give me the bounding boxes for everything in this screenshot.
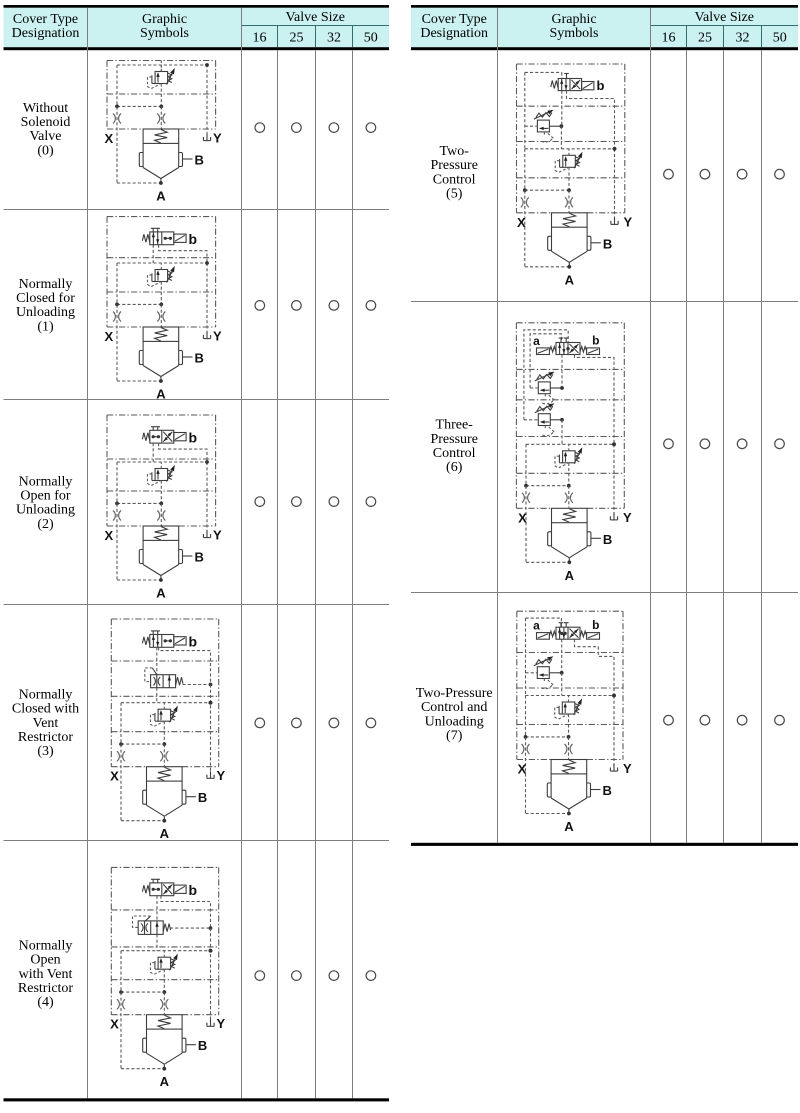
row 6 divider 3 [516, 436, 624, 438]
table bottom border [411, 843, 798, 846]
row 4 Y drain rail [209, 928, 213, 1021]
svg-text:(7): (7) [446, 728, 463, 743]
svg-text:B: B [603, 532, 612, 547]
svg-text:b: b [189, 882, 198, 898]
svg-text:X: X [104, 131, 113, 146]
svg-text:B: B [195, 351, 204, 366]
svg-text:16: 16 [253, 30, 267, 45]
row 3 enclosure (dash-dot boundary) [111, 619, 218, 767]
svg-text:b: b [592, 334, 599, 348]
table header background [4, 8, 390, 48]
row 6 compartment divider [516, 472, 624, 474]
row 1 vent passage line [117, 261, 209, 265]
row 2 pilot junction line [115, 502, 163, 506]
row 1 restrictor center [157, 304, 165, 326]
row 5 drain Y [611, 214, 633, 229]
svg-text:A: A [565, 568, 575, 583]
row 2 solenoid-to-vent line [152, 443, 154, 462]
svg-text:32: 32 [736, 30, 750, 45]
row 6 port A [565, 560, 575, 582]
svg-text:b: b [189, 231, 198, 247]
row 7 compartment divider [517, 724, 623, 726]
row 3 pilot relief valve [151, 703, 178, 744]
svg-text:Two-Pressure: Two-Pressure [416, 686, 493, 701]
row 4 pilot junction line [119, 990, 166, 994]
row 3 restrictor left [117, 751, 125, 761]
row 0 port level line [107, 128, 216, 130]
row 3 size circles [255, 718, 376, 728]
row 2 restrictor center [157, 503, 165, 525]
row 0 compartment divider [107, 93, 216, 95]
row 0 port A [156, 181, 166, 203]
svg-text:(1): (1) [37, 319, 54, 334]
row 5 port level line [517, 212, 625, 214]
row 0 restrictor left [113, 114, 121, 124]
row 2 upper divider [107, 458, 216, 460]
row 6 drain Y [610, 510, 632, 525]
row 5 X rail upper [524, 72, 526, 148]
row 6 main valve [548, 508, 591, 561]
row 3 port B [186, 790, 207, 805]
svg-text:X: X [518, 762, 527, 777]
row 6 remote relief 1 inlet [530, 387, 538, 389]
svg-text:Y: Y [623, 761, 632, 776]
row 4 restrictor left [117, 999, 125, 1009]
column lines [498, 8, 762, 843]
row 5 remote relief inlet [525, 125, 538, 127]
row 5 vent passage line [525, 147, 617, 151]
row 6 restrictor center [565, 486, 573, 508]
row 3 pilot junction line [119, 742, 166, 746]
row 6 remote relief 2 output [550, 418, 564, 444]
row 3 X pilot rail [121, 703, 164, 821]
row 2 port B [183, 550, 204, 565]
row 0 size circles [255, 123, 376, 133]
row 5 X pilot rail [525, 149, 570, 267]
left table header text [12, 10, 378, 45]
svg-text:Valve Size: Valve Size [694, 10, 753, 25]
svg-text:A: A [564, 819, 574, 834]
row 1 label [16, 277, 75, 334]
row 6 remote relief 2 inlet [524, 419, 538, 421]
row 5 port A [565, 265, 575, 287]
row 5 enclosure (dash-dot boundary) [517, 64, 625, 213]
row 3 restrictor center [160, 744, 168, 766]
svg-text:B: B [198, 1038, 207, 1053]
row 3 port X label [110, 769, 119, 784]
row 3 vent restrictor valve [145, 668, 183, 688]
svg-text:Normally: Normally [19, 277, 73, 292]
row 7 pilot junction line [524, 735, 571, 739]
row 1 port X label [104, 329, 113, 344]
row 2 label [16, 475, 75, 532]
row 4 solenoid-to-restrictor line [156, 896, 158, 921]
svg-text:Closed with: Closed with [12, 702, 79, 717]
svg-text:Pressure: Pressure [430, 158, 477, 173]
row 1 solenoid-to-vent line [152, 245, 154, 263]
row 5 label [430, 144, 477, 201]
row 2 port X label [104, 528, 113, 543]
row 5 port X label [517, 215, 526, 230]
column lines [88, 8, 353, 1099]
svg-text:Unloading: Unloading [425, 714, 484, 729]
row 7 port B [591, 783, 612, 798]
row 7 X pilot rail [526, 696, 569, 814]
row 6 port X label [518, 510, 527, 525]
row 2 compartment divider [107, 490, 216, 492]
row 2 port level line [107, 525, 216, 527]
row 6 vent passage line [526, 442, 616, 446]
row 4 label [18, 939, 74, 1010]
row 6 label [430, 418, 477, 475]
row 5 divider 2 [517, 141, 625, 143]
svg-text:Normally: Normally [19, 475, 73, 490]
svg-text:X: X [110, 1017, 119, 1032]
row 7 enclosure (dash-dot boundary) [517, 611, 623, 759]
row 6 pilot box inner [530, 334, 561, 388]
svg-text:A: A [156, 586, 166, 601]
table top border [411, 5, 798, 8]
svg-text:B: B [195, 550, 204, 565]
svg-text:Open: Open [30, 953, 60, 968]
table header background [411, 8, 798, 48]
row 5 solenoid-to-junction line [561, 91, 563, 127]
svg-text:Normally: Normally [19, 688, 73, 703]
row 4 vent restrictor valve [133, 916, 171, 934]
svg-text:Control: Control [433, 172, 476, 187]
row 2 enclosure (dash-dot boundary) [107, 415, 216, 526]
row 7 solenoid-to-junction line [561, 639, 563, 673]
svg-text:(5): (5) [446, 186, 463, 201]
row 3 restrictor outlet line [156, 688, 158, 703]
svg-text:Y: Y [217, 768, 226, 783]
row 1 Y drain rail [206, 263, 208, 334]
header bottom border [4, 47, 390, 50]
row 4 size circles [255, 971, 376, 981]
row 1 main valve [139, 327, 182, 380]
row 7 size circles [664, 715, 785, 725]
row 1 solenoid-to-Y line [159, 245, 207, 263]
row 6 divider 2 [516, 399, 624, 401]
row 3 drain Y [207, 768, 226, 783]
svg-text:25: 25 [290, 30, 304, 45]
row 7 pilot relief valve [555, 696, 582, 737]
row 5 pilot relief valve [555, 149, 582, 190]
svg-text:A: A [156, 387, 166, 402]
row 7 port level line [517, 759, 623, 761]
row 7 divider 2 [517, 687, 623, 689]
row 1 compartment divider [107, 291, 216, 293]
row 7 port X label [518, 762, 527, 777]
svg-text:Solenoid: Solenoid [21, 115, 71, 130]
row 0 drain Y [203, 131, 222, 146]
svg-text:25: 25 [698, 30, 712, 45]
row 0 pilot junction line [115, 105, 163, 109]
row 6 pilot junction line [524, 484, 571, 488]
row 6 pilot relief valve [555, 444, 582, 485]
row 4 main valve [143, 1015, 186, 1068]
row 7 main valve [547, 760, 590, 813]
svg-text:Three-: Three- [436, 418, 474, 433]
row 1 port A [156, 379, 166, 401]
row 1 restrictor left [113, 312, 121, 322]
svg-text:Symbols: Symbols [140, 26, 189, 41]
svg-text:32: 32 [327, 30, 341, 45]
row 6 remote relief valve 1 [535, 372, 555, 404]
row 6 restrictor left [522, 493, 530, 503]
row 4 restrictor outlet line [156, 934, 158, 950]
row 3 main valve [143, 767, 186, 820]
svg-text:(6): (6) [446, 460, 463, 475]
svg-text:16: 16 [662, 30, 676, 45]
row 7 label [416, 686, 493, 743]
row 1 pilot relief valve [148, 263, 175, 304]
row 3 port A [160, 819, 170, 841]
row 7 remote relief output [549, 671, 563, 696]
row 5 solenoid-to-Y line [567, 91, 615, 149]
svg-text:B: B [603, 783, 612, 798]
row 6 remote relief valve 2 [535, 403, 555, 435]
row 3 vent passage line [121, 701, 212, 705]
svg-text:Symbols: Symbols [549, 26, 598, 41]
row 4 divider 1 [111, 909, 218, 911]
svg-text:X: X [104, 528, 113, 543]
svg-text:(0): (0) [37, 143, 54, 158]
row 7 restrictor center [565, 737, 573, 759]
valve size sub-divider [651, 25, 799, 27]
svg-text:Designation: Designation [420, 26, 488, 41]
svg-text:X: X [517, 215, 526, 230]
row 4 port level line [111, 1014, 218, 1016]
row 3 port level line [111, 766, 218, 768]
row 5 restrictor left [521, 197, 529, 207]
row 3 solenoid-to-restrictor line [156, 647, 158, 674]
svg-text:Unloading: Unloading [16, 305, 75, 320]
row 4 enclosure (dash-dot boundary) [111, 867, 218, 1014]
row 0 restrictor center [157, 106, 165, 128]
svg-text:Y: Y [623, 510, 632, 525]
row 6 solenoid-to-junction line [561, 355, 563, 389]
row 0 vent passage line [117, 63, 209, 67]
row 6 enclosure (dash-dot boundary) [516, 323, 624, 509]
row 7 restrictor left [522, 744, 530, 754]
row 2 restrictor left [113, 511, 121, 521]
row 6 port B [591, 532, 612, 547]
svg-text:b: b [597, 78, 605, 93]
row 5 solenoid valve SOL b [551, 74, 605, 94]
svg-text:A: A [160, 1074, 170, 1089]
row 3 divider 1 [111, 660, 218, 662]
row 3 label [12, 688, 79, 759]
table bottom border [4, 1098, 390, 1101]
svg-text:(4): (4) [37, 995, 54, 1010]
row 3 divider 2 [111, 695, 218, 697]
row 5 pilot junction line [523, 188, 571, 192]
row 7 vent passage line [526, 694, 616, 698]
row 5 compartment divider [517, 177, 625, 179]
row 2 vent passage line [117, 460, 209, 464]
svg-text:Closed for: Closed for [16, 291, 75, 306]
table top border [4, 5, 390, 8]
row 7 pilot box [526, 618, 562, 627]
row 2 pilot relief valve [148, 462, 175, 503]
header bottom border [411, 47, 798, 50]
row 5 pilot box [525, 72, 562, 78]
svg-text:a: a [533, 619, 540, 633]
svg-text:Restrictor: Restrictor [18, 981, 74, 996]
svg-text:50: 50 [773, 30, 787, 45]
svg-text:b: b [189, 430, 198, 446]
row 2 solenoid-to-Y line [159, 443, 207, 462]
svg-text:Control and: Control and [421, 700, 488, 715]
svg-text:X: X [104, 329, 113, 344]
svg-text:Y: Y [624, 214, 633, 229]
row 5 port B [591, 236, 612, 251]
row 6 Y drain rail [612, 442, 616, 515]
row 0 pilot relief valve [148, 65, 175, 106]
row 6 size circles [664, 439, 785, 449]
svg-text:Designation: Designation [12, 26, 80, 41]
row 4 solenoid valve SOL b [142, 879, 197, 898]
row 6 remote relief 1 output [550, 386, 564, 390]
row 1 solenoid valve SOL b [142, 228, 197, 247]
row 2 size circles [255, 497, 376, 507]
row 1 enclosure (dash-dot boundary) [107, 217, 216, 327]
row 4 pilot relief valve [151, 951, 178, 992]
svg-text:Normally: Normally [19, 939, 73, 954]
row 3 solenoid-to-Y line [159, 647, 211, 684]
right table header text [420, 10, 786, 45]
svg-text:Cover Type: Cover Type [13, 12, 78, 27]
row 6 solenoid valve SOL a/b [533, 334, 599, 355]
row 5 restrictor center [565, 190, 573, 212]
svg-text:b: b [592, 618, 599, 632]
row 7 divider 1 [517, 652, 623, 654]
svg-text:B: B [603, 236, 612, 251]
row 4 vent passage line [121, 949, 212, 953]
row 7 port A [564, 812, 574, 834]
row 6 X pilot rail [526, 444, 569, 562]
row 0 Y drain rail [206, 64, 208, 133]
svg-text:A: A [565, 272, 575, 287]
row 4 X pilot rail [121, 951, 164, 1069]
row 6 divider 1 [516, 368, 624, 370]
row 5 Y drain rail [613, 147, 617, 219]
row 2 drain Y [203, 528, 222, 543]
row 5 remote relief valve [534, 110, 554, 142]
svg-text:Pressure: Pressure [430, 432, 477, 447]
row 7 Y drain rail [612, 694, 616, 767]
row 1 upper divider [107, 257, 216, 259]
row 4 port A [160, 1067, 170, 1089]
svg-text:with Vent: with Vent [19, 967, 73, 982]
row 0 port B [183, 153, 204, 168]
row 1 X pilot rail [117, 263, 161, 381]
row 7 drain Y [610, 761, 632, 776]
svg-text:Cover Type: Cover Type [422, 12, 487, 27]
row 0 relief inlet riser [160, 61, 162, 72]
svg-text:Valve Size: Valve Size [285, 10, 344, 25]
svg-text:Without: Without [23, 101, 68, 116]
svg-text:Two-: Two- [440, 144, 470, 159]
valve size sub-divider [242, 25, 390, 27]
row 4 drain Y [207, 1016, 226, 1031]
row 7 remote relief inlet [526, 672, 538, 674]
svg-text:A: A [156, 189, 166, 204]
row 0 X pilot rail [117, 65, 161, 183]
row 2 X pilot rail [117, 462, 161, 580]
row 7 remote relief valve [534, 656, 554, 688]
row 5 remote relief output [549, 124, 563, 149]
row 2 port A [156, 578, 166, 600]
row 4 compartment divider [111, 979, 218, 981]
row 0 main valve [139, 129, 182, 182]
svg-text:B: B [198, 790, 207, 805]
row 7 X rail upper [525, 618, 527, 695]
row 0 enclosure (dash-dot boundary) [107, 61, 216, 130]
row 6 pilot box outer [524, 330, 568, 420]
row 5 size circles [664, 169, 785, 179]
row 1 port B [183, 351, 204, 366]
svg-text:a: a [533, 334, 540, 348]
row 2 Y drain rail [206, 462, 208, 533]
svg-text:Graphic: Graphic [142, 12, 187, 27]
svg-text:Y: Y [217, 1016, 226, 1031]
row 4 port X label [110, 1017, 119, 1032]
row 3 Y drain rail [209, 685, 213, 774]
svg-text:(3): (3) [37, 744, 54, 759]
row 4 divider 2 [111, 946, 218, 948]
svg-text:Valve: Valve [30, 129, 62, 144]
row lines [411, 302, 798, 593]
row 0 port X label [104, 131, 113, 146]
svg-text:Unloading: Unloading [16, 503, 75, 518]
row 1 drain Y [203, 329, 222, 344]
svg-text:X: X [110, 769, 119, 784]
row 7 solenoid-to-Y line [575, 639, 615, 695]
svg-text:Y: Y [213, 528, 222, 543]
svg-text:A: A [160, 826, 170, 841]
row 1 pilot junction line [115, 303, 163, 307]
row 3 solenoid valve SOL b [142, 631, 197, 650]
row 3 vent valve output line [183, 683, 213, 687]
row 5 main valve [548, 213, 591, 266]
row 6 port level line [516, 507, 624, 509]
row lines [4, 210, 390, 841]
svg-text:(2): (2) [37, 517, 54, 532]
row 2 main valve [139, 526, 182, 579]
svg-text:B: B [195, 153, 204, 168]
svg-text:Y: Y [213, 329, 222, 344]
row 6 solenoid-to-Y line [575, 355, 615, 445]
row 0 label [21, 101, 71, 158]
svg-text:50: 50 [364, 30, 378, 45]
svg-text:Restrictor: Restrictor [18, 730, 74, 745]
svg-text:Control: Control [433, 446, 476, 461]
svg-text:b: b [189, 634, 198, 650]
row 7 solenoid valve SOL a/b [533, 618, 599, 639]
row 4 solenoid-to-Y line [161, 896, 211, 928]
row 1 port level line [107, 326, 216, 328]
row 4 port B [186, 1038, 207, 1053]
svg-text:X: X [518, 510, 527, 525]
svg-text:Graphic: Graphic [551, 12, 596, 27]
row 4 vent valve output line [170, 926, 212, 930]
svg-text:Open for: Open for [20, 489, 70, 504]
row 2 solenoid valve SOL b [142, 427, 197, 446]
row 1 size circles [255, 301, 376, 311]
svg-text:Vent: Vent [33, 716, 59, 731]
